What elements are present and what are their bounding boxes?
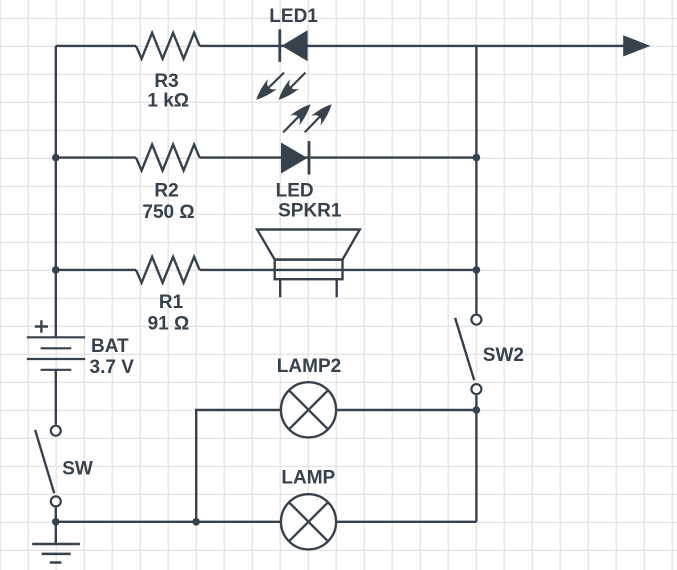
svg-text:R3: R3 <box>154 71 178 92</box>
svg-text:BAT: BAT <box>91 336 129 357</box>
svg-text:R2: R2 <box>154 181 178 202</box>
svg-text:750 Ω: 750 Ω <box>142 202 194 223</box>
svg-text:LED: LED <box>276 180 314 201</box>
svg-text:LAMP: LAMP <box>281 468 335 489</box>
svg-text:SW2: SW2 <box>483 345 524 366</box>
svg-text:1 kΩ: 1 kΩ <box>147 91 189 112</box>
svg-text:SPKR1: SPKR1 <box>278 200 342 221</box>
svg-text:LAMP2: LAMP2 <box>277 356 341 377</box>
svg-text:91 Ω: 91 Ω <box>148 314 190 335</box>
svg-text:LED1: LED1 <box>269 6 318 27</box>
svg-text:R1: R1 <box>159 292 184 313</box>
svg-text:3.7 V: 3.7 V <box>90 357 135 378</box>
svg-text:SW: SW <box>62 459 93 480</box>
